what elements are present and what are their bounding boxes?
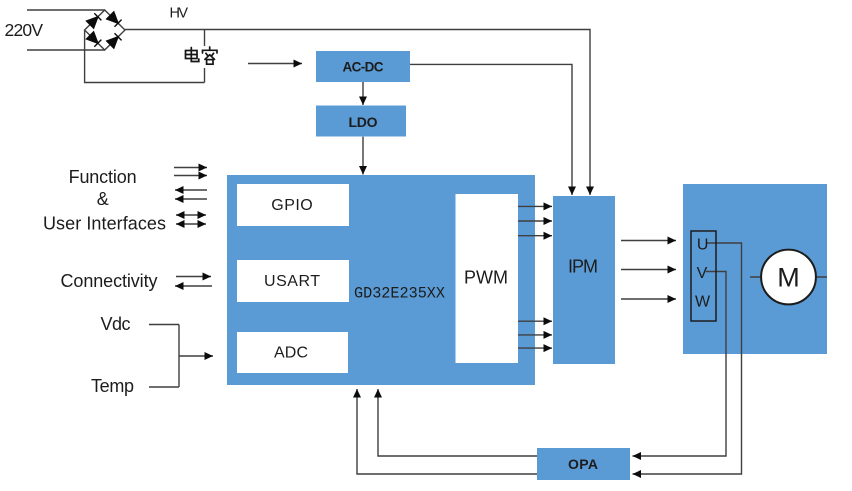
svg-text:OPA: OPA xyxy=(568,456,598,472)
svg-text:LDO: LDO xyxy=(349,114,378,130)
svg-text:HV: HV xyxy=(170,6,189,22)
svg-text:IPM: IPM xyxy=(568,257,598,277)
svg-text:Temp: Temp xyxy=(91,376,134,396)
svg-text:User Interfaces: User Interfaces xyxy=(43,214,166,234)
svg-text:Connectivity: Connectivity xyxy=(61,271,158,291)
svg-text:&: & xyxy=(97,189,109,209)
svg-text:GPIO: GPIO xyxy=(271,197,313,214)
svg-text:PWM: PWM xyxy=(464,268,508,288)
svg-text:Vdc: Vdc xyxy=(101,314,131,334)
svg-text:220V: 220V xyxy=(5,20,44,40)
svg-text:V: V xyxy=(697,265,708,282)
svg-text:M: M xyxy=(777,263,800,293)
svg-text:AC-DC: AC-DC xyxy=(343,60,384,75)
svg-text:GD32E235XX: GD32E235XX xyxy=(354,285,445,303)
svg-text:U: U xyxy=(697,237,709,254)
svg-text:USART: USART xyxy=(264,273,320,290)
svg-text:Function: Function xyxy=(69,167,137,187)
svg-text:ADC: ADC xyxy=(274,345,308,362)
svg-text:W: W xyxy=(695,294,711,311)
